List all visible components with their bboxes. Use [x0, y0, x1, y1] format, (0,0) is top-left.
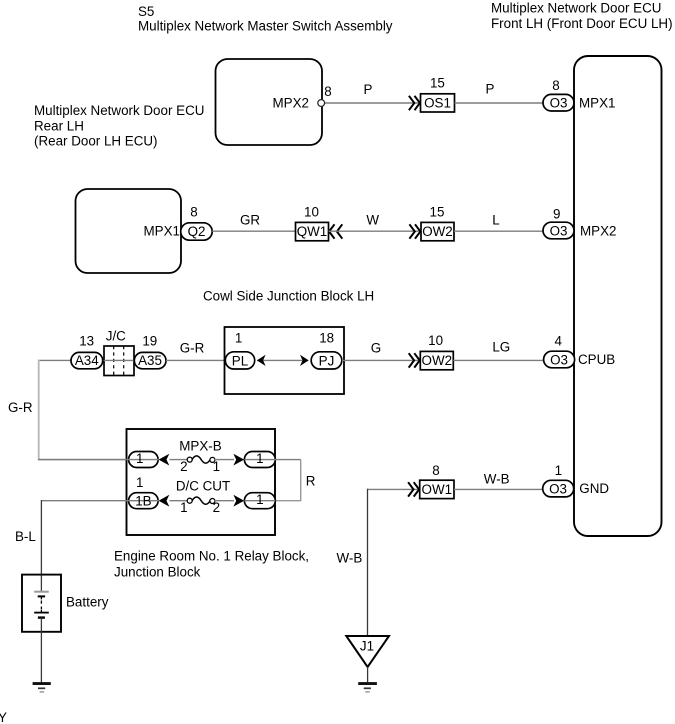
junction J/C box [104, 346, 134, 376]
fuse MPX-B [192, 456, 210, 463]
svg-text:CPUB: CPUB [578, 352, 615, 367]
chevrons into OW1 [408, 482, 419, 496]
connector A34 [71, 352, 103, 368]
svg-text:8: 8 [432, 463, 439, 478]
svg-text:W-B: W-B [484, 471, 510, 486]
svg-text:1: 1 [256, 492, 263, 507]
svg-text:OW2: OW2 [422, 353, 453, 368]
svg-text:8: 8 [190, 205, 197, 220]
arrow left row B [159, 495, 170, 507]
svg-text:O3: O3 [550, 352, 568, 367]
svg-text:19: 19 [142, 334, 157, 349]
svg-text:1: 1 [136, 451, 143, 466]
svg-text:W: W [366, 213, 379, 228]
wire B-L vertical to battery [40, 500, 42, 592]
wire through relay row A left [39, 459, 159, 461]
svg-text:13: 13 [79, 334, 94, 349]
svg-text:J/C: J/C [106, 329, 126, 344]
svg-text:9: 9 [553, 207, 560, 222]
svg-text:15: 15 [430, 75, 445, 90]
relay row A: right pin oval 1 [244, 452, 275, 468]
connector QW1 [296, 222, 329, 240]
svg-text:O3: O3 [549, 482, 567, 497]
svg-text:Rear LH: Rear LH [34, 118, 84, 133]
svg-text:1: 1 [213, 459, 220, 474]
svg-text:O3: O3 [550, 223, 568, 238]
svg-text:4: 4 [554, 334, 562, 349]
svg-text:OW1: OW1 [422, 482, 453, 497]
svg-text:MPX-B: MPX-B [179, 439, 221, 454]
svg-text:8: 8 [552, 78, 559, 93]
battery plate short [38, 595, 45, 597]
svg-text:1: 1 [136, 475, 143, 490]
engine room relay block box [127, 429, 276, 535]
relay row B: right pin oval 1 [244, 493, 275, 509]
battery box [22, 575, 61, 632]
wire from fuse row B [215, 500, 235, 502]
svg-text:W-B: W-B [337, 551, 363, 566]
svg-text:A35: A35 [138, 353, 162, 368]
svg-text:O3: O3 [550, 96, 568, 111]
connector PJ [311, 352, 342, 369]
wire W-B row4 right [454, 488, 543, 490]
svg-text:LG: LG [492, 340, 510, 355]
arrow left row A [159, 454, 170, 466]
wire LG [453, 359, 544, 361]
svg-text:Junction Block: Junction Block [114, 564, 201, 579]
svg-text:15: 15 [430, 204, 445, 219]
svg-text:18: 18 [319, 331, 334, 346]
ECU rear box row2 (MPX1) [76, 189, 182, 273]
connector A35 [134, 352, 166, 368]
relay row B: left pin oval 1B [129, 493, 159, 509]
svg-text:Q2: Q2 [188, 224, 206, 239]
svg-text:PL: PL [232, 353, 248, 368]
wire to fuse row B [170, 500, 187, 502]
svg-text:Battery: Battery [66, 594, 109, 609]
connector O3 pin CPUB [544, 351, 575, 368]
svg-text:MPX2: MPX2 [273, 96, 309, 111]
connector OW2 row2 [421, 222, 454, 240]
svg-text:1: 1 [256, 451, 263, 466]
wire J1 to ground [367, 667, 369, 683]
svg-text:S5: S5 [138, 4, 154, 19]
svg-text:D/C CUT: D/C CUT [176, 479, 230, 494]
svg-text:MPX1: MPX1 [144, 224, 180, 239]
ground below J1 [358, 682, 377, 685]
svg-text:1: 1 [555, 463, 562, 478]
wire W [329, 230, 421, 232]
connector Q2 [181, 223, 213, 240]
svg-text:2: 2 [180, 459, 187, 474]
ground point J1 triangle [346, 636, 389, 667]
svg-text:MPX1: MPX1 [579, 96, 615, 111]
svg-text:(Rear Door LH ECU): (Rear Door LH ECU) [34, 134, 158, 149]
svg-text:GND: GND [579, 481, 609, 496]
battery plate long 2 [40, 610, 42, 613]
wire P row1 left [325, 102, 421, 104]
svg-text:Engine Room No. 1 Relay Block,: Engine Room No. 1 Relay Block, [114, 548, 309, 563]
svg-text:GR: GR [240, 212, 260, 227]
arrow into PJ [300, 355, 309, 366]
chevrons into OW2 row2 [409, 224, 420, 238]
svg-text:MPX2: MPX2 [580, 223, 616, 238]
svg-text:Multiplex Network Door ECU: Multiplex Network Door ECU [491, 1, 661, 16]
svg-text:G-R: G-R [180, 341, 205, 356]
relay row A: left pin oval 1 [129, 452, 159, 468]
svg-text:QW1: QW1 [297, 224, 328, 239]
chevrons into OW2 row3 [409, 353, 420, 367]
relay loop wire R [275, 460, 300, 501]
wire L [454, 230, 544, 232]
connector O3 pin MPX2 [543, 222, 574, 239]
wire G [342, 359, 421, 361]
svg-text:1: 1 [235, 331, 242, 346]
ground below battery [33, 682, 51, 685]
svg-text:L: L [492, 213, 499, 228]
svg-text:Multiplex Network Master Switc: Multiplex Network Master Switch Assembly [138, 19, 393, 34]
svg-text:Y: Y [0, 710, 7, 724]
connector PL [225, 352, 254, 369]
wire battery to ground [40, 618, 42, 683]
wire from fuse row A [215, 459, 235, 461]
wire through J/C [103, 359, 135, 361]
front door ECU box [574, 56, 662, 536]
arrow right row B [233, 495, 244, 507]
wire P row1 right [455, 102, 544, 104]
svg-text:OS1: OS1 [424, 96, 451, 111]
svg-text:Multiplex Network Door ECU: Multiplex Network Door ECU [34, 103, 204, 118]
connector O3 pin MPX1 [543, 94, 574, 111]
wire between PL and PJ [257, 359, 308, 361]
svg-text:PJ: PJ [319, 353, 335, 368]
wire through relay row B left [41, 500, 159, 502]
wire to fuse row A [170, 459, 187, 461]
svg-text:Front LH (Front Door ECU LH): Front LH (Front Door ECU LH) [491, 16, 673, 31]
cowl side junction block box [225, 327, 345, 394]
arrow right row A [233, 454, 244, 466]
svg-text:10: 10 [304, 204, 319, 219]
wire W-B row4 [367, 488, 420, 490]
svg-text:J1: J1 [360, 639, 374, 654]
svg-text:P: P [486, 82, 495, 97]
svg-text:P: P [364, 82, 373, 97]
connector O3 pin GND [543, 480, 574, 497]
dashed splice lines [113, 346, 115, 376]
svg-text:1: 1 [180, 500, 187, 515]
arrow into PL [257, 355, 266, 366]
wire GR [212, 230, 295, 232]
wire G-R left vertical [38, 359, 71, 361]
svg-text:2: 2 [213, 500, 220, 515]
svg-text:B-L: B-L [15, 529, 36, 544]
connector OW2 row3 [420, 351, 453, 369]
svg-text:G: G [371, 341, 381, 356]
svg-text:1B: 1B [135, 493, 151, 508]
svg-text:OW2: OW2 [422, 224, 453, 239]
connector OW1 [420, 480, 454, 498]
ECU S5 box (Rear Door LH ECU) [216, 59, 323, 145]
connector chevrons into OS1 [409, 96, 420, 110]
svg-text:8: 8 [324, 84, 331, 99]
connector OS1 [421, 94, 455, 112]
svg-text:10: 10 [428, 333, 443, 348]
pin circle S5 MPX2 [318, 100, 325, 107]
svg-text:R: R [306, 473, 316, 488]
battery plate short 2 [38, 616, 45, 618]
fuse D/C CUT [192, 497, 210, 504]
battery plate long gray [34, 591, 49, 593]
wire G-R row3 [166, 359, 225, 361]
chevrons out of QW1 [329, 224, 342, 238]
battery dashed middle [40, 601, 42, 610]
svg-text:A34: A34 [75, 353, 99, 368]
svg-text:G-R: G-R [8, 400, 33, 415]
svg-text:Cowl Side Junction Block LH: Cowl Side Junction Block LH [203, 289, 374, 304]
